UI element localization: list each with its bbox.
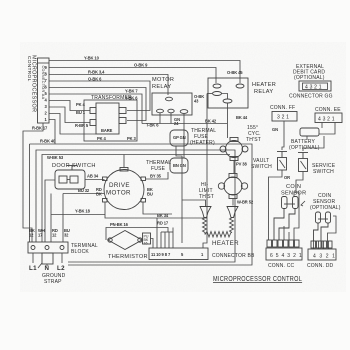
wire L1 lead xyxy=(32,253,34,263)
wire motor lower-left down to bus xyxy=(105,202,207,218)
svg-text:4 3 2 1: 4 3 2 1 xyxy=(305,85,322,91)
wire AA pin8 to heater relay (O-BK 9) xyxy=(49,68,216,84)
coin sensor optional assembly xyxy=(314,212,331,241)
svg-text:BU 32: BU 32 xyxy=(78,188,90,193)
svg-text:R-BK 40: R-BK 40 xyxy=(40,139,56,144)
wire Y-BK 18 xyxy=(51,214,105,216)
svg-text:MICROPROCESSOR CONTROL: MICROPROCESSOR CONTROL xyxy=(213,275,302,283)
connector EE box xyxy=(315,113,342,123)
wire AA bottom to left edge (R-BK 17) xyxy=(23,123,43,242)
svg-text:PN-BK 16: PN-BK 16 xyxy=(110,222,129,227)
svg-text:BLOCK: BLOCK xyxy=(71,249,89,255)
svg-text:PK 3: PK 3 xyxy=(127,136,137,141)
svg-text:16: 16 xyxy=(144,241,148,245)
service switch S4 xyxy=(298,153,308,172)
wire EE to battery and service switch xyxy=(306,136,308,140)
svg-text:3 2 1: 3 2 1 xyxy=(277,115,289,121)
svg-text:CONN. DD: CONN. DD xyxy=(307,263,334,269)
transformer outline box xyxy=(84,100,137,141)
wire FF down to vault switch xyxy=(282,121,284,150)
svg-text:GP GN: GP GN xyxy=(173,135,186,140)
svg-text:Y-BK 18: Y-BK 18 xyxy=(75,209,91,214)
wire AA pin5 to transformer right tab 2 xyxy=(49,88,146,121)
inner enclosure wire box (W-BK 53) xyxy=(36,150,235,262)
wire thermistor to BB xyxy=(151,239,154,249)
svg-text:STRAP: STRAP xyxy=(44,279,62,285)
155 cyc thermostat xyxy=(220,138,248,161)
wire heater relay to 155 thermostat xyxy=(227,103,229,138)
left riser wires to terminal block xyxy=(50,194,52,243)
svg-text:HEATER: HEATER xyxy=(212,240,239,247)
wire door switch left xyxy=(45,180,55,242)
svg-text:AB 34: AB 34 xyxy=(87,174,99,179)
wire AA pin1 down to transformer bottom lead xyxy=(49,114,96,135)
svg-text:BU 1: BU 1 xyxy=(76,110,86,115)
wire motor right to thermal fuse xyxy=(146,172,169,179)
svg-text:CONN. CC: CONN. CC xyxy=(268,263,295,269)
svg-text:PK 4: PK 4 xyxy=(97,136,107,141)
ground strap arrow xyxy=(38,263,42,268)
transformer T1 body xyxy=(90,103,126,134)
svg-text:(OPTIONAL): (OPTIONAL) xyxy=(294,75,325,81)
svg-text:L2: L2 xyxy=(57,265,65,272)
wire motor lower-right xyxy=(143,202,172,214)
svg-text:BU: BU xyxy=(147,192,153,197)
wire 155 to hi-limit xyxy=(233,161,235,174)
wire door switch right to motor xyxy=(85,179,105,181)
wire AA pin2 to transformer left tab 2 xyxy=(49,107,90,123)
motor relay K1 box xyxy=(152,93,192,115)
svg-text:(OPTIONAL): (OPTIONAL) xyxy=(310,205,341,211)
svg-text:6 5 4 3 2 1: 6 5 4 3 2 1 xyxy=(270,253,302,259)
connector CC box xyxy=(266,248,302,260)
heater element coils xyxy=(203,218,234,238)
wire AA pin4 to BK42 bus xyxy=(49,94,142,124)
pointer arrow xyxy=(301,201,305,206)
connector GG box xyxy=(299,81,331,91)
svg-text:CONN. FF: CONN. FF xyxy=(270,105,295,111)
connector DD box xyxy=(308,249,336,260)
svg-text:SWITCH: SWITCH xyxy=(251,164,272,170)
svg-text:RELAY: RELAY xyxy=(152,84,171,90)
outer enclosure wire box (R-BK 40) xyxy=(30,144,253,265)
svg-text:N: N xyxy=(45,265,50,272)
svg-text:OR: OR xyxy=(284,175,290,180)
wire thermistor top bus xyxy=(106,228,168,241)
conn CC pin stubs xyxy=(284,192,299,240)
heater right terminal cone xyxy=(227,207,238,218)
svg-text:CONTROL: CONTROL xyxy=(26,56,32,82)
svg-text:COIN: COIN xyxy=(286,184,301,190)
drive motor M1 xyxy=(103,168,146,210)
svg-text:R-BK 3,4: R-BK 3,4 xyxy=(88,70,105,75)
wire BK42 bus xyxy=(142,123,227,125)
ground strap box xyxy=(42,253,53,264)
conn DD pin stubs xyxy=(314,241,329,249)
terminal block TB xyxy=(28,242,68,253)
svg-text:4 3 2 1: 4 3 2 1 xyxy=(318,117,335,123)
svg-text:BK: BK xyxy=(96,192,102,197)
svg-text:SWITCH: SWITCH xyxy=(313,169,334,175)
svg-text:O-BK 9: O-BK 9 xyxy=(134,63,148,68)
wire vault switch down xyxy=(269,170,283,240)
svg-text:BK 34: BK 34 xyxy=(157,213,169,218)
wire W-BK 53 line xyxy=(42,155,230,243)
connector BB pin stubs xyxy=(157,218,173,248)
svg-text:RD 17: RD 17 xyxy=(157,221,169,226)
svg-text:4 3 2 1: 4 3 2 1 xyxy=(313,254,336,260)
wire motor relay drop 3 to thermal fuse xyxy=(183,113,185,158)
wire AA pin9 to heater relay (Y-BK 10) xyxy=(49,61,240,84)
wire thermal fuse heater down xyxy=(176,146,182,243)
svg-text:BN GN: BN GN xyxy=(173,163,186,168)
wire L2 lead xyxy=(61,253,63,263)
svg-text:R-BK 17: R-BK 17 xyxy=(32,126,48,131)
svg-text:O-BK 45: O-BK 45 xyxy=(227,70,243,75)
svg-text:DRIVE: DRIVE xyxy=(109,182,130,189)
svg-text:THERMISTOR: THERMISTOR xyxy=(108,254,148,260)
coin sensor assembly xyxy=(274,197,298,241)
left margin title: MICROPROCESSOR CONTROL (vertical) xyxy=(26,55,37,112)
wire AA pin7 to motor relay (R-BK 3,4) xyxy=(49,75,168,96)
vault switch S3 xyxy=(277,152,287,171)
wire from relay bus to BB xyxy=(207,93,212,95)
thermal fuse F2 xyxy=(170,158,188,173)
svg-text:BY 35: BY 35 xyxy=(150,174,162,179)
svg-text:MOTOR: MOTOR xyxy=(106,190,131,197)
svg-text:BK 44: BK 44 xyxy=(236,115,248,120)
thermal fuse F1 xyxy=(170,130,188,146)
svg-text:R-BR 5: R-BR 5 xyxy=(75,123,89,128)
svg-text:11 10 9 8 7: 11 10 9 8 7 xyxy=(151,252,171,257)
wire coin sensor opt extra xyxy=(328,216,337,241)
svg-text:O-BK 6: O-BK 6 xyxy=(88,77,102,82)
connector BB box xyxy=(149,248,208,260)
svg-text:TH'ST: TH'ST xyxy=(246,137,261,143)
outer box left edge wire xyxy=(29,144,31,242)
wire AA pin6 to transformer right tab xyxy=(49,81,150,111)
svg-text:TRANSFORMER: TRANSFORMER xyxy=(91,95,132,101)
svg-text:CONNECTOR GG: CONNECTOR GG xyxy=(289,94,333,100)
heater relay K2 box xyxy=(208,78,248,108)
svg-text:TH'ST: TH'ST xyxy=(199,194,214,200)
wire N lead xyxy=(46,264,48,266)
battery B1 xyxy=(300,123,335,137)
wire BU 32 xyxy=(63,193,105,195)
wire AA pin3 to transformer left tab 1 xyxy=(49,101,90,111)
wire motor relay drop 1 xyxy=(159,113,161,124)
hi-limit thermostat xyxy=(218,174,247,199)
svg-text:RELAY: RELAY xyxy=(254,89,273,95)
wire service switch down xyxy=(296,172,303,194)
svg-text:PV 38: PV 38 xyxy=(236,162,247,167)
svg-text:DOOR SWITCH: DOOR SWITCH xyxy=(52,163,96,169)
svg-text:PK 4: PK 4 xyxy=(76,102,86,107)
svg-text:W-BK 53: W-BK 53 xyxy=(47,155,64,160)
svg-text:GN: GN xyxy=(272,127,278,132)
svg-text:FUSE: FUSE xyxy=(151,166,166,172)
wire motor relay drop 2 xyxy=(170,113,172,124)
svg-text:W-BR 52: W-BR 52 xyxy=(237,200,254,205)
thermistor RT1 xyxy=(108,231,142,250)
svg-text:CONNECTOR BB: CONNECTOR BB xyxy=(212,253,255,259)
svg-text:L1: L1 xyxy=(29,265,37,272)
svg-text:HEATER: HEATER xyxy=(252,82,276,88)
scan grain texture xyxy=(20,42,346,292)
svg-text:(HEATER): (HEATER) xyxy=(190,140,215,146)
connector FF box xyxy=(272,112,297,122)
wire AA pin0 to corner bus xyxy=(49,120,55,145)
svg-text:CONN. EE: CONN. EE xyxy=(315,107,341,113)
door switch S1 xyxy=(55,166,85,190)
svg-text:Y-BK 10: Y-BK 10 xyxy=(84,56,100,61)
connector AA box xyxy=(38,58,50,123)
svg-text:Y-BK 7: Y-BK 7 xyxy=(125,89,138,94)
svg-text:MOTOR: MOTOR xyxy=(152,77,174,83)
wire motor top xyxy=(123,155,125,168)
svg-text:BARE: BARE xyxy=(101,128,113,133)
heater left terminal cone xyxy=(200,207,211,218)
wire heater left terminal up xyxy=(182,200,206,207)
wire hi-limit to heater xyxy=(232,199,234,206)
thermistor lead label box xyxy=(143,233,151,245)
